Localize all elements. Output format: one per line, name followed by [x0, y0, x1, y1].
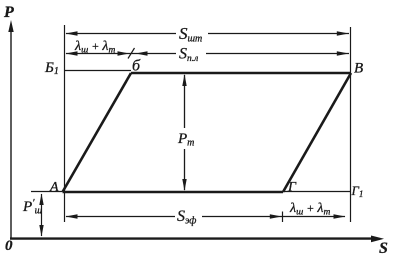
svg-text:P: P: [3, 4, 14, 21]
svg-text:0: 0: [5, 238, 13, 254]
svg-text:Г: Г: [287, 180, 297, 195]
svg-text:S: S: [379, 240, 388, 257]
svg-text:б: б: [132, 58, 141, 75]
svg-text:А: А: [49, 180, 59, 195]
svg-text:В: В: [354, 61, 363, 77]
